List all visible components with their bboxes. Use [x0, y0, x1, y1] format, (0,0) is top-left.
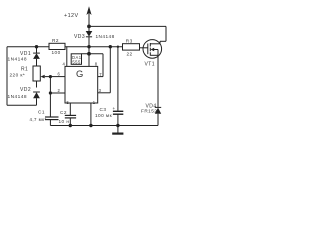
wire pin 5 lead down [69, 103, 71, 115]
svg-text:R3: R3 [126, 39, 133, 44]
node junction dot pin2 tap [49, 91, 52, 94]
svg-text:3: 3 [99, 88, 102, 93]
svg-text:R2: R2 [52, 38, 59, 43]
wire output vertical [109, 47, 111, 93]
svg-text:4: 4 [63, 62, 66, 67]
wire pin 1 lead down [90, 103, 92, 126]
svg-text:C3: C3 [100, 107, 107, 112]
svg-text:22: 22 [127, 51, 133, 56]
node junction dot output column [109, 45, 112, 48]
wire pin 4 lead [66, 47, 68, 67]
resistor R3 [123, 44, 140, 50]
node junction dot ground [116, 124, 119, 127]
svg-text:1N4148: 1N4148 [8, 94, 28, 100]
svg-text:VD2: VD2 [20, 87, 31, 93]
ground [112, 126, 123, 134]
transistor Q1 VT1 mosfet [140, 40, 167, 59]
wire line y53.8 to discharge column [82, 53, 104, 55]
diode VD4 [155, 107, 161, 125]
capacitor C3 [113, 47, 123, 126]
label box DA1 555 [71, 54, 82, 65]
svg-text:VD3: VD3 [74, 34, 85, 40]
wire wiper bus vertical to C1 [49, 77, 51, 117]
wire main horizontal line y=46.7 left part [7, 46, 49, 48]
wire main horizontal line y=46.7 right part [65, 46, 123, 48]
capacitor C2 [65, 115, 76, 125]
wire bottom rail [50, 125, 158, 127]
wire pin 8 lead [88, 47, 90, 67]
junction dot at +12V node [87, 25, 91, 29]
diode VD3 [86, 26, 93, 46]
svg-text:+: + [113, 106, 116, 111]
wire pin 3 lead [98, 92, 111, 94]
wire left frame bottom horizontal [7, 104, 37, 106]
svg-text:4,7 мк*: 4,7 мк* [30, 117, 47, 122]
node junction dot wiper [49, 75, 52, 78]
node junction dot VD1 top [35, 45, 38, 48]
svg-text:220 к*: 220 к* [10, 73, 26, 78]
svg-text:R1: R1 [21, 66, 28, 72]
svg-text:100 мк: 100 мк [95, 113, 113, 118]
wire pin 2 lead [50, 92, 65, 94]
svg-text:8: 8 [95, 62, 98, 67]
svg-text:1: 1 [93, 100, 96, 105]
resistor R1 variable [33, 66, 50, 88]
wire top rail from +12V node to right edge [89, 25, 166, 27]
svg-text:5: 5 [67, 100, 70, 105]
node +12V supply arrow [86, 6, 91, 26]
node junction dot VD3 cathode [87, 45, 90, 48]
svg-text:10 н: 10 н [59, 119, 70, 124]
svg-text:1N4148: 1N4148 [96, 34, 115, 39]
wire drain from top rail [165, 26, 167, 41]
svg-text:VD1: VD1 [20, 51, 31, 57]
svg-text:100: 100 [52, 50, 61, 55]
svg-text:2: 2 [58, 88, 61, 93]
wire source down to VD4 [157, 55, 159, 107]
capacitor C1 [45, 117, 59, 126]
svg-text:FR152: FR152 [141, 108, 157, 113]
svg-text:+12V: +12V [64, 13, 79, 19]
op-amp U1 timer DA1 555 box [65, 66, 98, 103]
svg-text:C2: C2 [60, 110, 67, 115]
diode VD1 [33, 47, 40, 66]
wire left frame vertical [6, 47, 8, 106]
svg-text:G: G [76, 68, 84, 79]
svg-text:VT1: VT1 [145, 62, 156, 68]
wire pin 6 lead [50, 76, 65, 78]
node junction dot C3 tap [117, 46, 119, 48]
wire discharge vertical [102, 54, 104, 77]
wire pin 7 lead [98, 76, 103, 78]
node junction dot pin 8 [87, 52, 91, 56]
svg-text:555: 555 [72, 60, 81, 65]
svg-text:1N4148: 1N4148 [8, 57, 28, 63]
svg-text:C1: C1 [38, 109, 45, 114]
diode VD2 [33, 92, 40, 105]
node junction dot pin1 bottom [89, 124, 92, 127]
svg-text:6: 6 [58, 72, 61, 77]
resistor R2 [49, 43, 65, 49]
node junction dot C2 bottom [69, 124, 72, 127]
svg-text:7: 7 [99, 72, 102, 77]
